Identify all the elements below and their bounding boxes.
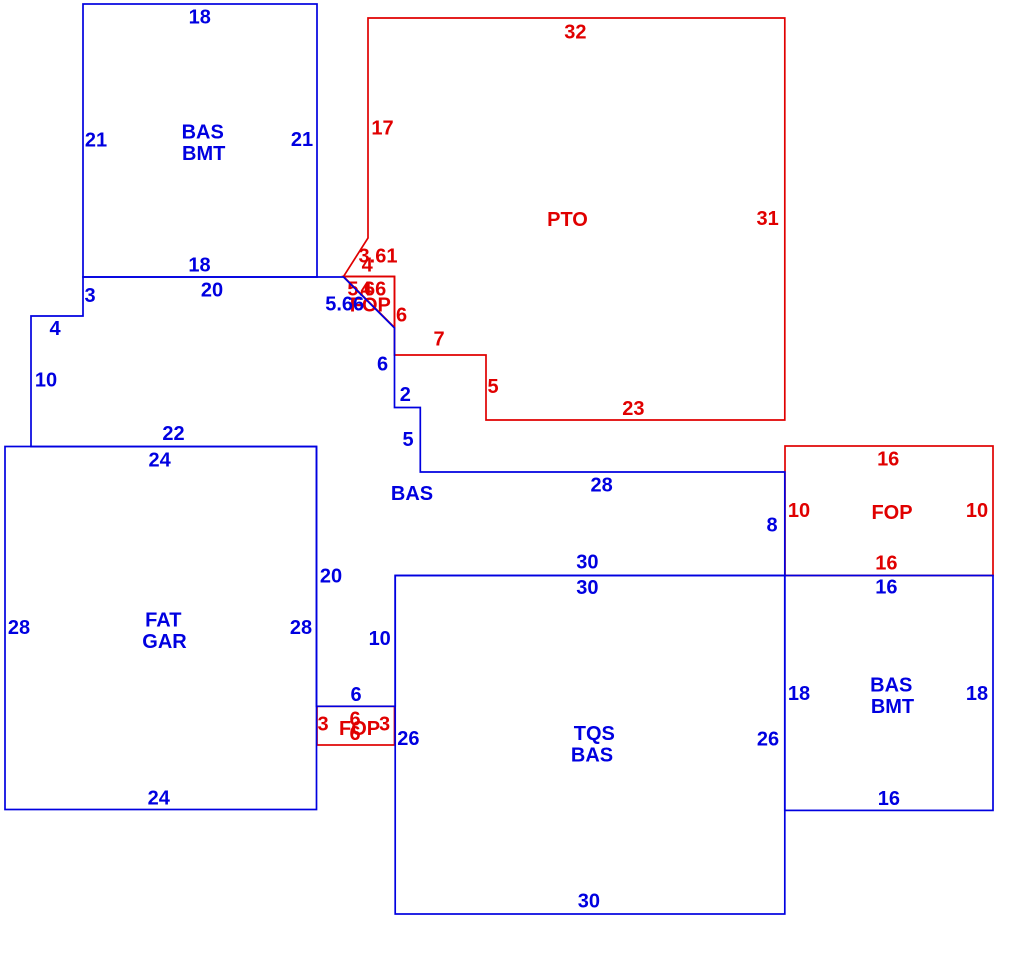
svg-text:24: 24 — [148, 787, 171, 809]
svg-text:31: 31 — [756, 208, 778, 230]
svg-text:10: 10 — [35, 370, 57, 392]
svg-text:6: 6 — [349, 723, 360, 745]
svg-text:28: 28 — [590, 475, 612, 497]
svg-text:16: 16 — [875, 577, 897, 599]
svg-text:30: 30 — [576, 577, 598, 599]
BAS BMT rectangle (bottom-right) — [785, 576, 993, 811]
svg-text:BAS: BAS — [182, 121, 224, 143]
svg-text:20: 20 — [320, 566, 342, 588]
svg-text:4: 4 — [362, 255, 374, 277]
svg-text:24: 24 — [148, 449, 171, 471]
svg-text:6: 6 — [396, 305, 407, 327]
svg-text:4: 4 — [49, 318, 61, 340]
svg-text:BMT: BMT — [871, 696, 914, 718]
svg-text:20: 20 — [201, 280, 223, 302]
svg-text:10: 10 — [966, 500, 988, 522]
svg-text:TQS: TQS — [574, 723, 615, 745]
svg-text:FAT: FAT — [145, 610, 181, 632]
svg-text:7: 7 — [433, 329, 444, 351]
svg-text:30: 30 — [578, 891, 600, 913]
svg-text:5: 5 — [402, 429, 413, 451]
svg-text:3: 3 — [317, 714, 328, 736]
svg-text:18: 18 — [788, 683, 810, 705]
svg-text:18: 18 — [189, 7, 211, 29]
svg-text:FOP: FOP — [871, 502, 912, 524]
svg-text:28: 28 — [290, 617, 312, 639]
svg-text:17: 17 — [371, 118, 393, 140]
svg-text:18: 18 — [188, 255, 210, 277]
svg-text:6: 6 — [350, 684, 361, 706]
svg-text:10: 10 — [369, 628, 391, 650]
svg-text:10: 10 — [788, 500, 810, 522]
svg-text:3: 3 — [379, 714, 390, 736]
svg-text:16: 16 — [878, 788, 900, 810]
svg-text:2: 2 — [400, 384, 411, 406]
svg-text:26: 26 — [757, 729, 779, 751]
PTO patio outline — [344, 18, 785, 420]
svg-text:BMT: BMT — [182, 143, 225, 165]
svg-text:3: 3 — [84, 285, 95, 307]
svg-text:5.66: 5.66 — [325, 294, 364, 316]
svg-text:21: 21 — [85, 129, 107, 151]
svg-text:5: 5 — [487, 376, 498, 398]
svg-text:18: 18 — [966, 683, 988, 705]
svg-text:BAS: BAS — [870, 675, 912, 697]
svg-text:8: 8 — [766, 515, 777, 537]
BAS first-floor outline polygon — [31, 277, 785, 706]
BAS BMT rectangle (top-left) — [83, 4, 317, 277]
svg-text:BAS: BAS — [391, 483, 433, 505]
FOP porch rectangle (right) — [785, 446, 993, 576]
svg-text:23: 23 — [622, 398, 644, 420]
FOP porch rectangle (small, lower) — [317, 706, 395, 745]
svg-text:16: 16 — [877, 448, 899, 470]
svg-text:22: 22 — [162, 423, 184, 445]
svg-text:6: 6 — [377, 354, 388, 376]
FAT GAR rectangle — [5, 447, 317, 810]
svg-text:GAR: GAR — [142, 631, 187, 653]
TQS BAS rectangle — [395, 576, 785, 915]
svg-text:26: 26 — [397, 728, 419, 750]
svg-text:PTO: PTO — [547, 209, 588, 231]
svg-text:16: 16 — [875, 553, 897, 575]
svg-text:32: 32 — [564, 22, 586, 44]
svg-text:28: 28 — [8, 617, 30, 639]
svg-text:30: 30 — [576, 552, 598, 574]
svg-text:BAS: BAS — [571, 745, 613, 767]
FOP porch triangle (upper) — [344, 277, 395, 328]
svg-text:21: 21 — [291, 129, 313, 151]
